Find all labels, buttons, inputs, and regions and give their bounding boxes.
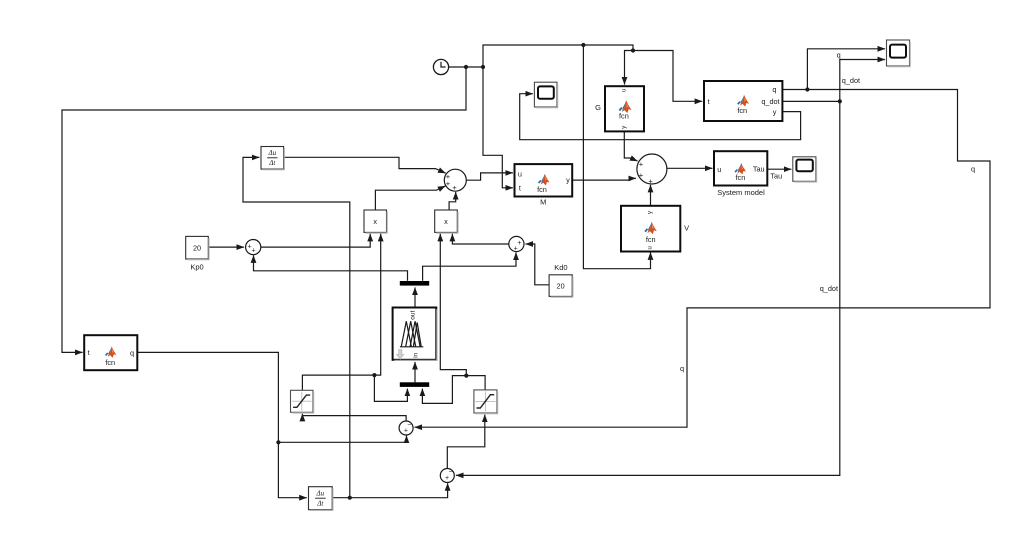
svg-text:+: + <box>517 240 521 247</box>
svg-text:+: + <box>648 176 653 185</box>
svg-text:Tau: Tau <box>753 165 765 174</box>
svg-text:q: q <box>837 50 841 59</box>
svg-text:V: V <box>684 224 689 233</box>
derivative block 2 (du/dt) <box>309 487 333 510</box>
wire q_dot to scope input 2 <box>840 60 885 102</box>
demux block <box>400 281 429 286</box>
wire t to V block input <box>583 45 650 269</box>
System model MATLAB fcn block <box>714 151 767 185</box>
membership function triangles <box>400 346 423 348</box>
wire product x2 output to sum A <box>449 192 456 210</box>
wire clock to M block t input <box>483 67 513 188</box>
junction q_dot output <box>838 99 842 103</box>
svg-text:+: + <box>446 179 451 188</box>
svg-text:q: q <box>680 364 684 373</box>
svg-text:+: + <box>404 427 408 434</box>
svg-text:20: 20 <box>193 243 201 252</box>
wire sum2 output to product x2 <box>452 234 508 244</box>
svg-text:Kp0: Kp0 <box>190 263 203 272</box>
gray input arrow of fuzzy block <box>397 350 404 360</box>
svg-text:fcn: fcn <box>537 185 547 194</box>
svg-text:Δt: Δt <box>268 159 276 167</box>
svg-text:+: + <box>514 246 518 253</box>
G MATLAB fcn block (rotated) <box>605 86 644 131</box>
wire t to G block input <box>625 51 634 85</box>
wire derivative2 output to sum4 <box>332 483 447 498</box>
svg-text:G: G <box>595 103 601 112</box>
junction saturation1 output <box>372 373 376 377</box>
wire saturation1 output to product x1 <box>302 234 380 390</box>
wire V output to sum B <box>650 185 652 206</box>
junction derivative2 output <box>348 496 352 500</box>
wire Kd0 constant to sum2 <box>526 244 550 285</box>
junction saturation2 output <box>464 374 468 378</box>
wire left fcn q output <box>138 352 279 442</box>
Kd0 constant block (20) <box>549 275 572 297</box>
clock block <box>433 59 448 74</box>
svg-text:Δt: Δt <box>316 500 324 508</box>
saturation block 2 <box>474 390 497 413</box>
svg-text:M: M <box>540 198 546 207</box>
left MATLAB fcn block (trajectory) <box>84 335 137 370</box>
svg-text:x: x <box>373 217 377 226</box>
svg-text:fcn: fcn <box>105 358 115 367</box>
svg-text:q: q <box>130 349 134 358</box>
wire saturation2 branch to product x2 <box>440 234 466 376</box>
svg-text:q_dot: q_dot <box>820 284 838 293</box>
svg-text:in: in <box>413 352 420 357</box>
product block x1 <box>364 210 387 232</box>
M MATLAB fcn block <box>515 164 573 196</box>
svg-text:u: u <box>647 246 653 249</box>
wire sum4 output to saturation2 <box>447 415 485 469</box>
svg-text:q: q <box>971 164 975 173</box>
wire demux out1 to sum1 <box>254 255 408 280</box>
junction clock A <box>464 65 468 69</box>
sum circle B (3 inputs, large) <box>637 154 667 184</box>
wire q to derivative2 input <box>278 442 306 497</box>
wire mux output to fuzzy controller <box>414 362 416 382</box>
wire sum B output to System model <box>667 167 713 169</box>
wire G output to sum B <box>624 131 637 161</box>
svg-text:y: y <box>622 126 628 129</box>
sum circle 4 (velocity error) <box>440 469 454 483</box>
svg-text:+: + <box>639 159 644 168</box>
wire q to sum3 plus input <box>278 436 406 443</box>
wire fuzzy controller output to demux <box>414 287 416 307</box>
sum circle 2 (Kd adjust) <box>509 236 524 251</box>
wire q feedback: big fcn q output down to sum3 <box>415 90 991 428</box>
derivative block 1 (du/dt) <box>261 147 284 170</box>
junction clock B <box>481 65 485 69</box>
sum circle 1 (Kp adjust) <box>246 240 261 255</box>
wire sum1 output to product x1 <box>261 234 370 247</box>
sum circle A (3 inputs) <box>444 169 466 191</box>
svg-text:out: out <box>409 310 416 319</box>
wire sum3 output to saturation1 <box>302 414 406 421</box>
product block x2 <box>435 210 458 232</box>
wire t to big fcn t input <box>633 51 702 102</box>
svg-text:+: + <box>452 183 457 192</box>
wire feedback to derivative1 input <box>243 157 350 497</box>
saturation block 1 <box>291 390 314 412</box>
svg-text:u: u <box>717 165 721 174</box>
svg-text:t: t <box>708 97 710 106</box>
svg-text:Kd0: Kd0 <box>554 263 567 272</box>
mux block <box>400 382 429 387</box>
fuzzy logic controller block <box>393 308 437 360</box>
wire System model Tau to scope2 <box>767 168 791 170</box>
svg-text:System model: System model <box>717 188 765 197</box>
wire M y output to sum B <box>572 178 636 180</box>
wire y feedback to scope1 <box>520 94 801 140</box>
svg-text:t: t <box>88 348 90 357</box>
svg-text:+: + <box>251 248 255 255</box>
wire saturation2 output to mux input 2 <box>422 376 485 404</box>
wire Kp0 constant to sum1 <box>208 246 244 248</box>
svg-text:+: + <box>445 475 449 482</box>
svg-text:u: u <box>621 89 627 92</box>
svg-text:x: x <box>444 217 448 226</box>
junction left fcn q <box>276 440 280 444</box>
svg-text:y: y <box>647 211 653 214</box>
junction q output <box>805 87 809 91</box>
svg-text:q_dot: q_dot <box>842 76 860 85</box>
svg-text:Δu: Δu <box>316 489 325 497</box>
V MATLAB fcn block (rotated) <box>621 206 680 252</box>
wire sum A output to M u input <box>466 173 513 180</box>
scope 3 (q, q_dot) <box>887 40 910 66</box>
svg-text:q_dot: q_dot <box>761 97 779 106</box>
svg-text:Tau: Tau <box>770 171 782 180</box>
wire demux out2 to sum2 <box>423 252 516 280</box>
svg-text:fcn: fcn <box>646 235 656 244</box>
wire product x1 output to sum A <box>375 186 445 210</box>
svg-text:+: + <box>639 170 644 179</box>
svg-text:u: u <box>518 169 522 178</box>
wire saturation1 branch to mux input 1 <box>374 375 407 401</box>
svg-text:t: t <box>519 184 521 193</box>
svg-text:fcn: fcn <box>619 111 629 120</box>
svg-text:q: q <box>772 85 776 94</box>
wire clock to left fcn t input <box>62 67 466 352</box>
wire derivative1 output to sum A <box>284 157 446 173</box>
svg-text:fcn: fcn <box>737 106 747 115</box>
junction t line to V <box>581 43 585 47</box>
svg-text:Δu: Δu <box>267 149 276 157</box>
wire q to scope input 1 <box>807 49 885 90</box>
svg-text:y: y <box>773 107 777 116</box>
sum circle 3 (position error) <box>399 421 413 435</box>
scope 1 <box>534 82 557 107</box>
svg-text:y: y <box>566 176 570 185</box>
wire q_dot feedback to sum4 <box>456 101 840 475</box>
junction t line G/bigfcn <box>631 48 635 52</box>
Kp0 constant block (20) <box>186 236 209 259</box>
big MATLAB fcn block (reference model) <box>704 81 782 121</box>
scope 2 (Tau) <box>793 157 816 182</box>
svg-text:fcn: fcn <box>736 173 746 182</box>
wire clock output to junctions <box>449 45 634 67</box>
svg-text:20: 20 <box>557 281 565 290</box>
